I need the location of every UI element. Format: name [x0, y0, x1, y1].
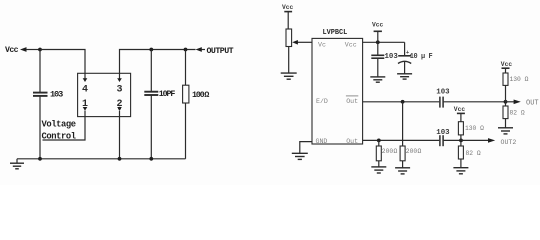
wire pin1 to control stub — [43, 111, 86, 140]
svg-text:100: 100 — [192, 91, 205, 100]
node B junction (10PF tap) — [149, 48, 153, 52]
svg-text:4: 4 — [82, 85, 88, 96]
svg-text:82 Ω: 82 Ω — [466, 150, 481, 157]
pin 3 arrow — [117, 78, 122, 82]
capacitor C2 10PF : top lead — [150, 50, 152, 92]
capacitor C1 plates — [33, 92, 48, 94]
wire node A to pin4 drop — [40, 50, 85, 79]
OUTPUT arrow — [196, 47, 202, 52]
svg-text:Vcc: Vcc — [345, 41, 357, 48]
wire node G to R5 — [378, 140, 380, 146]
svg-text:Vcc: Vcc — [501, 61, 513, 68]
wire Vcc to node A — [26, 49, 40, 51]
ground symbol (GND pin) — [292, 152, 308, 154]
svg-text:OUT: OUT — [526, 100, 539, 108]
wire pin3 to output rail — [120, 50, 196, 79]
node H junction — [459, 139, 463, 143]
svg-text:103: 103 — [436, 89, 450, 97]
resistor R3 top lead — [505, 102, 507, 106]
capacitor C1 103 : top lead — [39, 50, 41, 93]
svg-text:LVPBCL: LVPBCL — [323, 29, 348, 37]
Vcc bar (top right) — [502, 67, 510, 69]
svg-text:82 Ω: 82 Ω — [510, 110, 525, 117]
Vcc bar (bottom net) — [457, 112, 465, 114]
svg-text:OUTPUT: OUTPUT — [207, 47, 234, 56]
svg-text:OUT2: OUT2 — [501, 139, 517, 146]
svg-text:130 Ω: 130 Ω — [465, 125, 484, 132]
resistor R7 82ohm body — [458, 146, 463, 159]
ground symbol (R7) — [453, 167, 468, 169]
resistor R6 bottom lead — [460, 135, 462, 141]
ground symbol (R3) — [498, 127, 513, 129]
svg-text:Vcc: Vcc — [372, 22, 384, 29]
wire Out to C6 — [363, 139, 440, 141]
junction C2-rail — [149, 157, 153, 161]
node F junction — [504, 100, 508, 104]
wire C6 to node H — [444, 139, 461, 141]
wire node E to R4 (crossing) — [402, 102, 404, 146]
capacitor C3 plates — [371, 54, 384, 56]
svg-text:103: 103 — [385, 53, 399, 61]
resistor R3 bottom lead — [505, 119, 507, 128]
svg-text:Out: Out — [346, 98, 358, 105]
junction pin2-rail — [118, 157, 122, 161]
svg-text:103: 103 — [50, 90, 63, 100]
svg-text:130 Ω: 130 Ω — [510, 76, 529, 83]
resistor R4 200ohm body — [400, 146, 405, 161]
resistor R2 130ohm body — [503, 73, 508, 85]
resistor R1 100ohm : top lead — [185, 50, 187, 86]
capacitor C3 bottom lead — [377, 58, 379, 76]
wire C5 to node F — [444, 101, 506, 103]
resistor R1 bottom lead — [185, 103, 187, 159]
potentiometer RV1 body — [286, 29, 292, 47]
resistor R4 bottom lead — [402, 161, 404, 168]
IC U2 LVPBCL box — [312, 38, 363, 144]
ground symbol (pot) — [281, 72, 297, 74]
resistor R2 bottom lead — [505, 85, 507, 101]
resistor R1 body — [183, 85, 189, 103]
capacitor C2 plates — [144, 91, 158, 93]
capacitor C3 103 : top lead — [377, 42, 379, 55]
capacitor C4 10uF : top lead — [404, 42, 406, 56]
capacitor C4 plates (polarized) — [398, 55, 411, 57]
pot wiper arrow — [298, 41, 313, 43]
capacitor C1 bottom lead — [39, 97, 41, 159]
ground symbol (C4) — [397, 73, 412, 75]
svg-text:Voltage: Voltage — [42, 119, 76, 129]
svg-text:Vcc: Vcc — [5, 46, 19, 55]
ground symbol (R4) — [395, 167, 410, 169]
wire Vcc to pot — [287, 12, 289, 29]
svg-text:Vcc: Vcc — [454, 106, 466, 113]
wire Out(bar) to C5 — [363, 101, 440, 103]
IC U1 box — [78, 73, 131, 116]
resistor R7 bottom lead — [460, 159, 462, 168]
wire GND pin to ground — [300, 142, 312, 153]
resistor R7 top lead — [460, 140, 462, 146]
svg-text:GND: GND — [316, 138, 328, 145]
ground rail (left circuit) — [17, 158, 186, 160]
ground symbol (C3) — [370, 76, 385, 78]
wire pin2 to ground rail — [119, 111, 121, 159]
svg-text:E/D: E/D — [316, 98, 328, 105]
resistor R3 82ohm body — [503, 106, 508, 119]
svg-text:Out: Out — [346, 138, 358, 145]
svg-text:3: 3 — [116, 85, 122, 96]
Vcc bar (pot) — [284, 11, 292, 13]
capacitor C4 bottom lead — [404, 62, 406, 74]
ground symbol (R5) — [371, 166, 386, 168]
capacitor C2 bottom lead — [150, 96, 152, 159]
node E junction — [401, 100, 405, 104]
resistor R6 130ohm body — [458, 122, 463, 135]
wire Vcc pin to node D — [363, 41, 405, 43]
capacitor C6 103 plates — [439, 135, 441, 146]
svg-text:200 Ω: 200 Ω — [406, 148, 422, 155]
node C junction (100 ohm tap) — [184, 48, 188, 52]
ground symbol (left) — [16, 159, 18, 163]
node A junction — [38, 48, 42, 52]
wire pot to ground — [288, 47, 290, 73]
svg-text:Vc: Vc — [318, 41, 326, 48]
svg-text:Vcc: Vcc — [282, 4, 294, 11]
svg-text:Ω: Ω — [204, 91, 209, 100]
Vcc arrow — [20, 47, 27, 52]
resistor R5 200ohm body — [376, 146, 381, 161]
resistor R5 bottom lead — [378, 161, 380, 167]
svg-text:10 μ F: 10 μ F — [410, 53, 433, 61]
node D junction — [376, 40, 380, 44]
OUT2 arrow — [461, 139, 488, 141]
junction C1-rail — [38, 157, 42, 161]
svg-text:10PF: 10PF — [159, 90, 176, 99]
svg-text:200 Ω: 200 Ω — [382, 148, 398, 155]
Vcc bar (node D) — [374, 30, 382, 32]
svg-text:103: 103 — [436, 129, 450, 137]
OUT arrow — [506, 101, 514, 103]
node G junction — [377, 139, 381, 143]
capacitor C5 103 plates — [439, 97, 441, 108]
svg-text:Control: Control — [42, 132, 76, 142]
pin 4 arrow — [83, 78, 88, 82]
pin 2 arrow — [117, 107, 122, 111]
pin 1 arrow — [83, 107, 88, 111]
